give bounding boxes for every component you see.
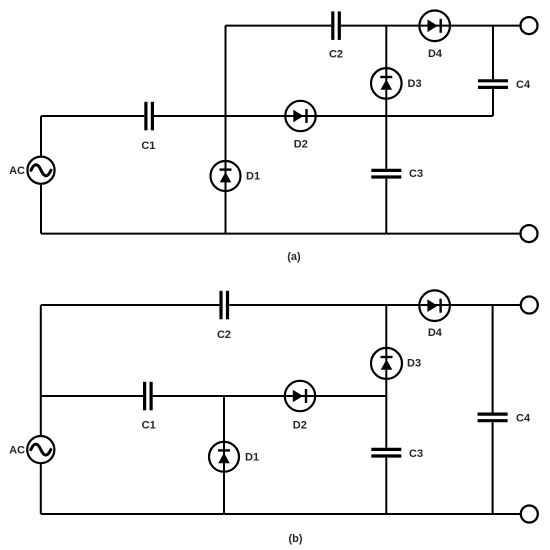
wire: (b) D1 column middle rail to bottom rail [223,396,225,514]
wire: (b) middle rail right segment C1 to D3 column [153,395,387,397]
capacitor C2 (b) [221,291,228,320]
terminal top right (b) [521,297,538,314]
capacitor C4 (a) [478,81,508,88]
AC source (a) [27,157,54,184]
wire: (b) D3/C3 column upper segment [385,305,387,448]
diode D1 (b) [209,442,239,472]
wire: (b) bottom rail [41,513,521,515]
capacitor C2 (a) [333,11,340,40]
wire: (a) middle rail left segment AC to C1 [41,115,144,117]
svg-text:AC: AC [9,165,25,177]
terminal bottom right (b) [521,506,538,523]
wire: (b) C4 column upper segment [492,305,494,413]
svg-text:D1: D1 [245,452,259,464]
svg-text:D4: D4 [428,48,443,60]
wire: (b) top rail left segment to C2 [41,304,220,306]
wire: (a) C4 column upper segment [492,26,494,80]
diode D2 (a) [285,101,315,131]
terminal bottom right (a) [521,225,538,242]
wire: (a) C4 column lower segment [492,89,494,116]
diode D3 (a) [371,68,402,99]
wire: (b) left vertical through AC source [40,305,42,514]
svg-text:AC: AC [9,445,25,457]
capacitor C1 (a) [146,102,153,131]
svg-text:(a): (a) [287,251,301,263]
svg-text:D3: D3 [407,358,421,370]
wire: (a) top rail right segment C2 to terminal [341,25,521,27]
wire: (a) D3/C3 column upper segment [385,26,387,169]
svg-text:C3: C3 [409,448,423,460]
svg-text:C1: C1 [141,140,155,152]
svg-text:D3: D3 [408,78,422,90]
svg-text:C3: C3 [409,168,423,180]
wire: (a) left vertical through AC source [40,116,42,234]
AC source (b) [27,436,54,463]
svg-text:C4: C4 [516,79,531,91]
wire: (a) middle rail right segment C1 to C4 column [154,115,493,117]
svg-text:C2: C2 [217,329,231,341]
svg-text:D1: D1 [246,171,260,183]
diode D3 (b) [371,348,402,379]
wire: (a) bottom rail [41,233,521,235]
diode D4 (b) [419,290,450,321]
wire: (b) middle rail left segment AC to C1 [41,395,143,397]
svg-text:C1: C1 [142,419,156,431]
svg-text:D2: D2 [294,138,308,150]
svg-text:D2: D2 [293,420,307,432]
capacitor C3 (a) [371,170,401,177]
capacitor C1 (b) [145,382,152,411]
diode D4 (a) [419,10,450,41]
wire: (b) top rail right segment C2 to terminal [229,304,521,306]
wire: (a) vertical at D1 column, top rail to bottom rail [225,26,227,234]
wire: (b) C4 column lower segment [492,422,494,514]
diode D2 (b) [285,381,315,411]
capacitor C4 (b) [478,414,508,421]
wire: (a) D3/C3 column lower segment [385,179,387,234]
svg-text:C4: C4 [516,412,531,424]
wire: (b) D3/C3 column lower segment [385,458,387,514]
terminal top right (a) [521,17,538,34]
svg-text:C2: C2 [329,49,343,61]
svg-text:D4: D4 [428,327,443,339]
wire: (a) top rail left segment to C2 [226,25,332,27]
diode D1 (a) [211,161,241,191]
svg-text:(b): (b) [288,533,302,545]
capacitor C3 (b) [371,449,401,456]
